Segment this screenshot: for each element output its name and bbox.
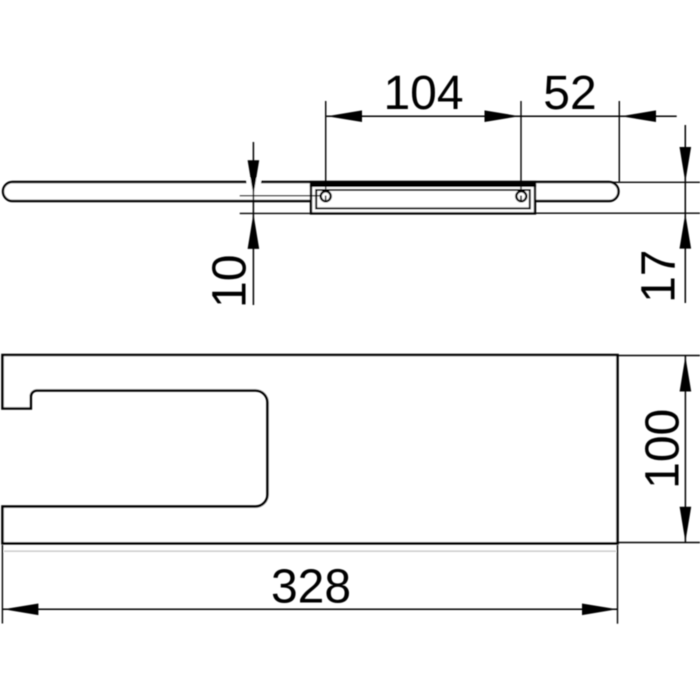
svg-text:328: 328 — [271, 561, 351, 614]
extension line of plate right edge (down, for dim 328) — [617, 545, 619, 624]
svg-text:52: 52 — [543, 67, 596, 120]
svg-text:104: 104 — [383, 67, 463, 120]
arrow top of dim 100 (pointing up) — [680, 357, 692, 392]
screw hole right center tick — [520, 196, 522, 202]
screw hole centerline extension (for dim 10) — [240, 195, 321, 197]
arrow bottom of dim 10 (pointing up) — [248, 214, 260, 249]
dimension line 328 — [3, 608, 618, 610]
dimension line 104 / 52 — [326, 115, 676, 117]
arrow left of dim 328 (pointing left) — [3, 604, 38, 616]
arrow top of dim 17 (pointing down) — [680, 147, 692, 182]
screw hole left — [321, 191, 331, 201]
extension line of plate bottom edge (right, for dim 100) — [618, 542, 700, 544]
extension line from right screw hole up to dim line — [520, 101, 522, 196]
bracket inner face — [316, 190, 530, 208]
svg-text:17: 17 — [633, 250, 686, 303]
screw hole right — [516, 191, 526, 201]
plate outline (top view with towel-bar cutout) — [3, 355, 618, 543]
arrow right of dim 52 (outside, pointing left) — [621, 110, 656, 122]
dimension line 100 (vertical) — [684, 356, 686, 542]
extension line of plate left edge (down, for dim 328) — [1, 545, 3, 624]
extension line of shelf top edge (right, for dim 17) — [612, 181, 700, 183]
extension line of plate top edge (right, for dim 100) — [618, 355, 700, 357]
screw hole left center tick — [325, 196, 327, 202]
arrow bottom of dim 100 (pointing down) — [680, 507, 692, 542]
arrow right of dim 104 — [485, 110, 520, 122]
gap in shelf top edge where dim 10 crosses — [247, 178, 262, 185]
extension line of bracket bottom (left, for dim 10) — [240, 212, 311, 214]
shelf profile (front view capsule) — [3, 182, 619, 201]
arrow bottom of dim 17 (pointing up) — [680, 214, 692, 249]
extension line from left screw hole up to dim line — [325, 101, 327, 196]
svg-text:10: 10 — [204, 255, 257, 308]
dimension line 10 (vertical) — [252, 142, 254, 305]
svg-text:100: 100 — [637, 409, 690, 489]
arrow top of dim 10 (pointing down) — [248, 160, 260, 195]
arrow left of dim 104 — [327, 110, 362, 122]
extension line from shelf right end up to dim line — [618, 101, 620, 182]
bracket top band (merged with shelf top edge) — [310, 181, 536, 187]
arrow right of dim 328 (pointing right) — [582, 604, 617, 616]
extension line of bracket bottom (right, for dim 17) — [535, 212, 700, 214]
faint shadow line under plate bottom edge — [4, 550, 616, 552]
dimension line 17 (vertical) — [684, 125, 686, 303]
bracket outer body — [311, 186, 535, 214]
